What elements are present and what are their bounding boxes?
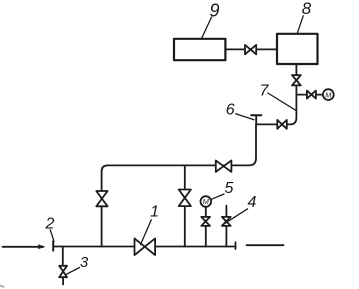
fitting 6 (tee vent) (251, 115, 261, 124)
wire main header (53, 246, 235, 248)
valve on riser 2 (179, 190, 191, 207)
wire drain drop (62, 247, 64, 267)
svg-text:5: 5 (225, 180, 234, 197)
svg-text:1: 1 (150, 204, 159, 221)
svg-text:4: 4 (248, 194, 257, 211)
valve on gauge branch (307, 91, 316, 99)
svg-text:6: 6 (226, 101, 235, 118)
wire continuation break segment (247, 244, 284, 246)
vessel 9 (174, 39, 225, 60)
wire gauge stub 5 (205, 207, 207, 247)
valve 1 (main) (135, 238, 156, 255)
gauge M (upper) (323, 89, 334, 100)
wire inlet segment left (3, 246, 44, 248)
leader for label 9 (201, 17, 211, 39)
leader for label 3 (67, 268, 80, 275)
svg-text:М: М (203, 197, 210, 206)
arrowhead on inlet (39, 245, 45, 248)
node 2 shutoff tick (52, 241, 54, 250)
svg-text:7: 7 (260, 83, 270, 100)
leader for label 6 (236, 114, 254, 120)
valve 3 (59, 266, 67, 277)
svg-text:М: М (325, 90, 332, 99)
valve on stub 4 (222, 217, 231, 226)
leader for label 8 (297, 16, 303, 34)
valve on line between fitting 6 and corner (277, 120, 287, 129)
valve between 9 and 8 (245, 45, 256, 54)
leader for label 1 (141, 220, 152, 245)
wire drain stub below valve 3 (62, 277, 64, 284)
gauge M (item 5) (201, 196, 212, 207)
paper smudge bottom left (0, 286, 4, 287)
valve on upper header (216, 161, 232, 172)
wire sample stub 4 (225, 206, 227, 247)
wire from vessel 8 down to corner and left to fitting 6 (256, 64, 296, 124)
leader for label 4 (222, 209, 247, 225)
svg-text:3: 3 (80, 254, 89, 271)
leader for label 5 (211, 194, 224, 199)
wire gauge branch 7 (296, 94, 323, 96)
valve on gauge stub 5 (201, 217, 210, 226)
svg-text:2: 2 (45, 216, 55, 233)
leader for label 2 (50, 230, 54, 242)
valve below vessel 8 (292, 75, 301, 85)
end cap of main header (235, 242, 237, 249)
wire riser 2 (184, 165, 186, 246)
valve on riser 1 (96, 191, 107, 206)
vessel 8 (277, 34, 318, 64)
wire riser 1 with upper header and down-leg from fitting 6 (102, 124, 256, 246)
wire vessel 9 to vessel 8 (225, 48, 277, 50)
leader for label 7 (268, 93, 297, 111)
